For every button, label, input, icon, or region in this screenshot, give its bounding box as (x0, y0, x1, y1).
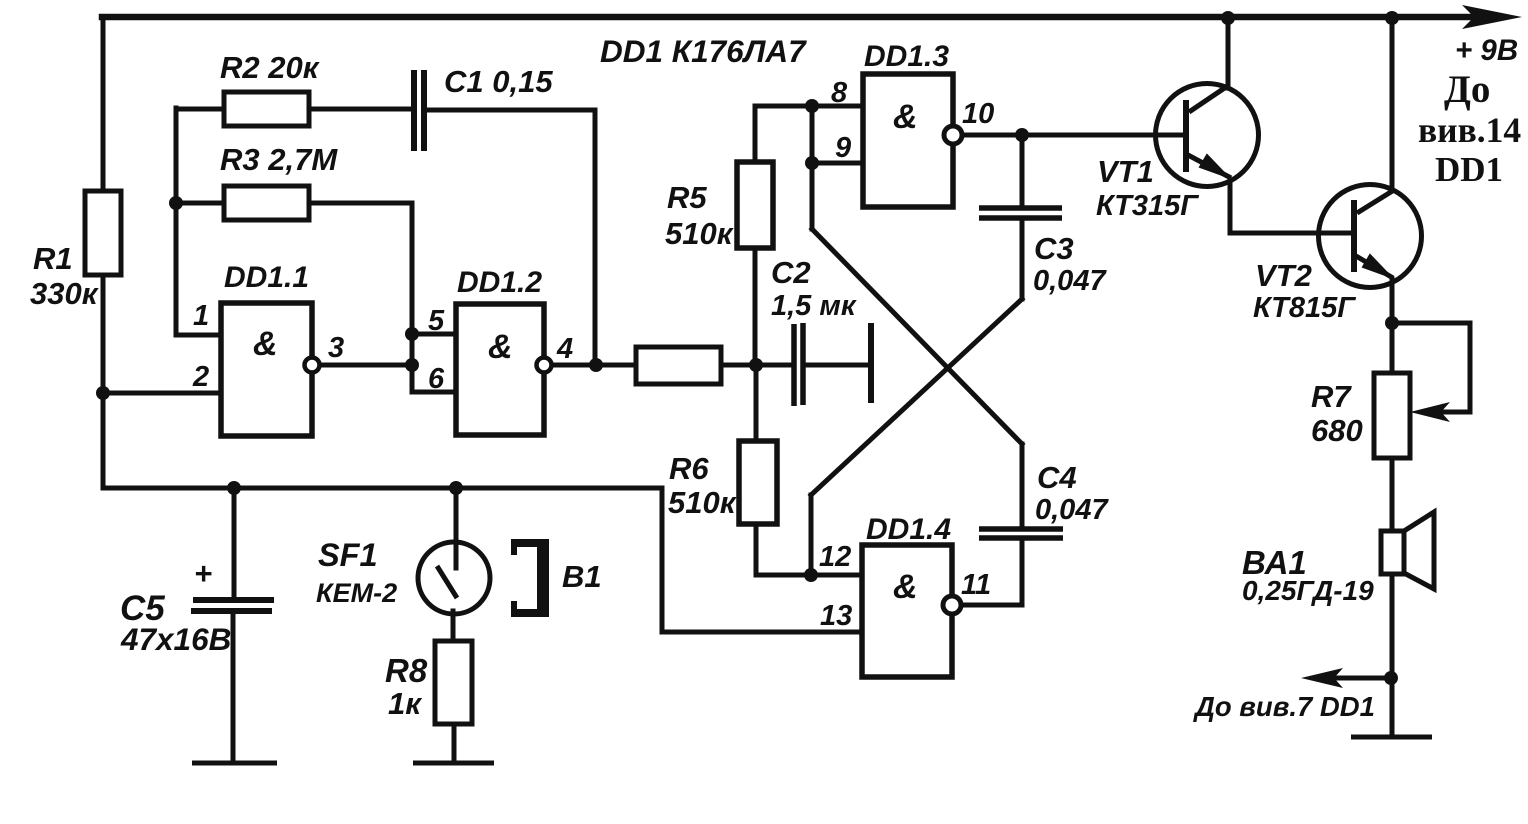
wire pin 2 DD1.1 (103, 391, 221, 396)
svg-text:9: 9 (835, 132, 851, 164)
arrow +9V rail right (1462, 5, 1522, 29)
svg-text:3: 3 (328, 332, 344, 364)
node R1/pin2 (96, 386, 110, 400)
svg-text:DD1.2: DD1.2 (457, 266, 542, 299)
wire vertical R3 to pins 5/6 (410, 203, 415, 392)
wire pin 1 DD1.1 (176, 333, 221, 338)
resistor R8 (435, 641, 472, 724)
svg-text:R5: R5 (667, 180, 707, 215)
svg-text:&: & (253, 325, 278, 363)
label B1 (562, 559, 602, 594)
label C3 (1033, 231, 1107, 297)
wire top +9V rail (102, 14, 1500, 21)
label VT2 (1253, 258, 1356, 324)
wire R5 bottom to node (753, 248, 758, 364)
wire R4 right to C2 (721, 363, 791, 368)
wire diagonal pin9 to C4 (812, 229, 1022, 444)
label C2 (771, 255, 857, 322)
pin number 10 (962, 98, 994, 130)
svg-text:+: + (194, 556, 212, 591)
wire SF1 top (454, 488, 459, 568)
label plus C5 (194, 556, 212, 591)
wire R7 bottom to speaker (1390, 458, 1395, 533)
wire pin 13 DD1.4 (662, 630, 864, 635)
svg-text:DD1.4: DD1.4 (866, 513, 951, 546)
svg-text:До: До (1444, 68, 1490, 111)
svg-text:До вив.7 DD1: До вив.7 DD1 (1193, 691, 1375, 722)
wire vertical diagonal end to pin12 node (809, 495, 814, 575)
svg-text:&: & (893, 98, 918, 136)
pin number 8 (831, 77, 848, 109)
svg-text:С3: С3 (1034, 231, 1074, 266)
svg-text:13: 13 (820, 600, 852, 632)
label +9V (1455, 34, 1518, 67)
svg-text:2: 2 (192, 361, 209, 393)
capacitor C3 (979, 208, 1062, 218)
pin number 9 (835, 132, 851, 164)
wire left vertical from rail to R1 (101, 18, 106, 191)
pin number 4 (556, 333, 573, 365)
svg-text:SF1: SF1 (318, 537, 378, 573)
wire pin 3 DD1.1 output (319, 363, 412, 368)
resistor R5 (737, 162, 773, 248)
wire C1 to vertical (427, 108, 595, 113)
svg-text:10: 10 (962, 98, 994, 130)
label C1 (444, 64, 553, 99)
wire R2 right to C1 (309, 107, 412, 112)
svg-text:R7: R7 (1311, 379, 1352, 414)
svg-text:DD1: DD1 (1435, 150, 1503, 189)
arrow to pin7 left (1301, 668, 1343, 688)
label VT1 (1096, 154, 1199, 222)
switch SF1 (418, 542, 490, 614)
arrow R7 wiper (1410, 402, 1450, 422)
svg-text:DD1.3: DD1.3 (864, 40, 949, 73)
wire diagonal C3 to pin12 (811, 299, 1022, 495)
resistor R6 (739, 441, 777, 524)
node BA1/pin7 arrow (1384, 671, 1398, 685)
contact B1 (511, 539, 549, 617)
wire pin 8 stub (812, 104, 863, 109)
label R2 (220, 50, 320, 85)
svg-text:VT2: VT2 (1255, 258, 1312, 293)
svg-text:R6: R6 (669, 451, 709, 486)
label DD1.4 (866, 513, 951, 546)
svg-text:&: & (488, 328, 513, 366)
svg-text:В1: В1 (562, 559, 602, 594)
wire VT1 emitter down and to VT2 base (1230, 180, 1352, 233)
node junction dots (96, 11, 1399, 685)
wire C3 bottom (1020, 220, 1025, 299)
transistor VT2 (1319, 185, 1422, 288)
wire pin 9 stub (812, 161, 863, 166)
svg-text:КТ815Г: КТ815Г (1253, 292, 1356, 324)
svg-text:0,25ГД-19: 0,25ГД-19 (1242, 575, 1374, 606)
wire VT2 collector to rail (1390, 18, 1395, 190)
svg-text:47х16В: 47х16В (120, 621, 231, 657)
label C5 (120, 589, 231, 657)
label DD1.2 (457, 266, 542, 299)
pin number 3 (328, 332, 344, 364)
node rail/VT1 (1221, 11, 1235, 25)
label R1 (30, 241, 99, 311)
svg-text:VT1: VT1 (1097, 154, 1154, 189)
svg-text:КТ315Г: КТ315Г (1096, 190, 1199, 222)
svg-text:R3 2,7М: R3 2,7М (220, 142, 338, 177)
capacitor C1 (414, 70, 424, 151)
NAND gate DD1.4 (862, 545, 961, 677)
node VT2 emitter/R7 wiper (1385, 316, 1399, 330)
ground bar under C5 (192, 761, 277, 766)
pin number 11 (961, 569, 991, 601)
wire pin 6 stub (412, 390, 456, 395)
node C2 open terminal bar (868, 323, 874, 403)
node pin4 (589, 358, 603, 372)
label До вив.14 DD1 (1418, 68, 1521, 189)
resistor R4 (636, 347, 721, 384)
resistor R1 (85, 191, 121, 275)
wire pin 5 stub (412, 332, 456, 337)
svg-text:8: 8 (831, 77, 848, 109)
svg-text:КЕМ-2: КЕМ-2 (316, 578, 397, 608)
NAND gate DD1.1 (221, 303, 320, 436)
pin number 5 (428, 305, 445, 337)
svg-text:1: 1 (193, 300, 209, 332)
wire C5 bottom (231, 614, 236, 761)
svg-text:6: 6 (428, 363, 445, 395)
resistor R7 (1374, 373, 1410, 458)
wire SF1 to R8 (451, 611, 456, 641)
wire bus corner down to pin13 level (660, 488, 665, 632)
svg-text:0,047: 0,047 (1035, 494, 1109, 526)
wire R3 right (309, 201, 412, 206)
svg-text:510к: 510к (668, 485, 737, 520)
wire pin 4 DD1.2 output (552, 363, 636, 368)
label До вив.7 DD1 (1193, 691, 1375, 722)
resistor R3 (224, 186, 309, 220)
capacitor C2 (794, 323, 803, 406)
wire R7 wiper loop (1392, 323, 1470, 412)
pin number 12 (819, 541, 851, 573)
svg-text:+ 9В: + 9В (1455, 34, 1518, 67)
wire R2 left (176, 107, 224, 112)
node pin9 (805, 156, 819, 170)
svg-text:11: 11 (961, 569, 991, 601)
svg-text:С4: С4 (1037, 460, 1077, 495)
svg-text:DD1.1: DD1.1 (224, 261, 309, 294)
pin number 13 (820, 600, 852, 632)
label DD1.1 (224, 261, 309, 294)
svg-text:330к: 330к (30, 276, 99, 311)
wire C5 top (232, 488, 237, 597)
node pin8 (805, 99, 819, 113)
wire node to R6 top (754, 365, 759, 441)
svg-text:R8: R8 (385, 652, 428, 689)
svg-text:С2: С2 (771, 255, 811, 290)
svg-text:4: 4 (556, 333, 573, 365)
pin number 6 (428, 363, 445, 395)
wire C4 bottom to pin11 (1020, 540, 1025, 605)
svg-text:R2 20к: R2 20к (220, 50, 320, 85)
wire VT1 collector to rail (1226, 18, 1231, 88)
node pin10/C3 (1015, 128, 1029, 142)
wire VT2 emitter down to R7 (1390, 279, 1395, 373)
wire to pin 7 arrow (1318, 676, 1391, 681)
node pin12 (804, 568, 818, 582)
NAND gate DD1.2 (456, 304, 552, 435)
transistor VT1 (1022, 84, 1259, 187)
wire C3 top (1020, 135, 1025, 206)
capacitor C5 polarized (191, 600, 274, 611)
svg-text:вив.14: вив.14 (1418, 110, 1521, 150)
wire R1 bottom to bus corner (101, 275, 106, 488)
wire C2 right plate to terminal bar (805, 363, 869, 368)
svg-text:1,5 мк: 1,5 мк (771, 290, 857, 322)
ground bar under BA1 (1351, 735, 1432, 740)
svg-text:&: & (893, 568, 918, 606)
node rail/VT2 (1385, 11, 1399, 25)
wire R5 top (755, 106, 812, 162)
svg-text:С1 0,15: С1 0,15 (444, 64, 553, 99)
svg-text:510к: 510к (665, 216, 734, 251)
node R3 junction (169, 196, 183, 210)
pin number 1 (193, 300, 209, 332)
label R8 (385, 652, 428, 721)
wire R2/R3 feedback vertical (174, 108, 179, 335)
label DD1.3 (864, 40, 949, 73)
wire mid bus horizontal (103, 486, 662, 491)
node pin3/6 (405, 358, 419, 372)
wire R6 bottom to pin12 level (756, 525, 811, 575)
node bus/C5 (227, 481, 241, 495)
wire R3 left (176, 201, 224, 206)
svg-text:680: 680 (1311, 413, 1363, 448)
label C4 (1035, 460, 1109, 526)
resistor R2 (224, 92, 309, 126)
label SF1 (316, 537, 397, 608)
NAND gate DD1.3 (863, 74, 962, 207)
node pin5 (405, 327, 419, 341)
ground bar under R8 (413, 761, 494, 766)
label BA1 (1242, 544, 1374, 606)
wire pin 11 DD1.4 output (961, 603, 1022, 608)
speaker BA1 (1381, 512, 1434, 589)
svg-text:R1: R1 (33, 241, 73, 276)
wire vertical diagonal end to C4 top (1020, 444, 1025, 527)
wire R8 bottom (452, 724, 457, 761)
svg-text:DD1 К176ЛА7: DD1 К176ЛА7 (600, 33, 807, 69)
capacitor C4 (979, 529, 1063, 538)
label R6 (668, 451, 737, 520)
label DD1 К176ЛА7 (600, 33, 807, 69)
label R5 (665, 180, 734, 251)
svg-text:12: 12 (819, 541, 851, 573)
wire vertical pin8 to diagonal start (810, 106, 815, 229)
node C2/R5/R6 (749, 358, 763, 372)
svg-text:5: 5 (428, 305, 445, 337)
svg-text:1к: 1к (388, 686, 422, 721)
node bus/SF1 (449, 481, 463, 495)
wire pin 10 DD1.3 output to VT1 base (962, 133, 1183, 138)
wire vertical C1 to pin4 node (593, 110, 598, 364)
pin number 2 (192, 361, 209, 393)
label R3 (220, 142, 338, 177)
svg-text:0,047: 0,047 (1033, 265, 1107, 297)
label R7 (1311, 379, 1363, 448)
wire speaker bottom down (1390, 571, 1395, 735)
wire pin 12 DD1.4 (811, 573, 864, 578)
